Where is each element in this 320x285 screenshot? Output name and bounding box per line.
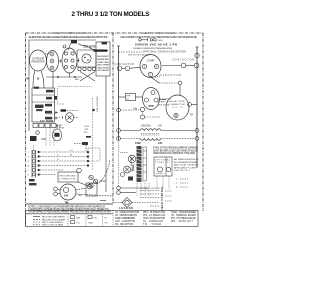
svg-text:TSTAT KIT: TSTAT KIT — [155, 161, 171, 164]
field ground box — [58, 172, 78, 182]
svg-text:LINE VOLTAGE: LINE VOLTAGE — [96, 95, 99, 112]
transformer core — [141, 134, 160, 136]
svg-text:TO INDOOR UNIT: TO INDOOR UNIT — [140, 188, 161, 190]
wire nuts — [89, 175, 98, 187]
transformer secondary wires — [76, 188, 113, 196]
fan motor wire to cap — [160, 99, 167, 101]
svg-text:WB: WB — [77, 217, 81, 219]
cabinet right edge — [105, 76, 107, 192]
wire A to B — [46, 60, 48, 62]
transformer TM — [60, 184, 76, 200]
svg-text:USE COPPER CONDUCTORS ONLY SEE: USE COPPER CONDUCTORS ONLY SEE RATING PL… — [120, 35, 197, 39]
svg-text:FOR FIELD POWER SUPPLY WIRING: FOR FIELD POWER SUPPLY WIRING SEE NOTES — [133, 48, 173, 50]
cabinet edge tick — [100, 180, 106, 182]
svg-text:24V WIRING: 24V WIRING — [131, 156, 133, 172]
low voltage wire nut 2 — [121, 166, 131, 176]
svg-text:GND: GND — [88, 222, 93, 224]
field power box fine print — [97, 56, 110, 72]
fan relay circle — [52, 129, 61, 141]
unit casing border left — [25, 33, 27, 227]
svg-text:ONLY SEE RP: ONLY SEE RP — [97, 70, 110, 72]
field power entry box — [96, 42, 110, 76]
svg-text:OL - OVERLOAD: OL - OVERLOAD — [143, 220, 163, 223]
rung fan feed — [117, 108, 140, 112]
svg-text:OPTIONAL CRANKCASE HEATER: OPTIONAL CRANKCASE HEATER — [143, 50, 186, 53]
svg-text:LEGEND: LEGEND — [119, 206, 133, 210]
heater lead — [74, 144, 86, 152]
wire nut splice — [59, 113, 79, 123]
replacement wire note block — [153, 147, 198, 155]
svg-text:24V: 24V — [158, 125, 163, 127]
svg-text:OFM - OD FAN MOTOR: OFM - OD FAN MOTOR — [143, 217, 165, 220]
legend line samples — [33, 217, 40, 225]
svg-text:2 THRU 3 1/2 TON MODELS: 2 THRU 3 1/2 TON MODELS — [72, 11, 150, 18]
svg-text:W: W — [28, 166, 30, 168]
svg-text:FM - FAN MOTOR: FM - FAN MOTOR — [115, 223, 133, 226]
svg-text:TM - TIMER: TM - TIMER — [143, 224, 161, 226]
divider between connection and ladder diagram — [112, 33, 114, 204]
transformer secondary dotted leads — [137, 183, 149, 196]
svg-text:OFM: OFM — [148, 105, 153, 108]
fuse link — [67, 110, 79, 112]
svg-text:SEE NOTE 2: SEE NOTE 2 — [174, 170, 191, 172]
right header label — [139, 31, 177, 35]
svg-text:CONTACTOR: CONTACTOR — [172, 59, 194, 62]
svg-text:FIELD GROUND: FIELD GROUND — [60, 176, 76, 178]
svg-text:FACTORY LOW VOLTAGE: FACTORY LOW VOLTAGE — [42, 218, 66, 221]
run capacitor terminal to rail — [188, 103, 192, 107]
svg-text:208/230V: 208/230V — [141, 125, 151, 127]
svg-text:WHEN INSTALLING REPLACEMENT WI: WHEN INSTALLING REPLACEMENT WIRE USE SAM… — [29, 35, 108, 39]
board lead dotted wires — [46, 129, 54, 147]
CONT label — [35, 105, 44, 108]
contactor field terminals — [55, 111, 59, 120]
crossed wires — [80, 72, 95, 82]
svg-text:TM: TM — [65, 201, 69, 205]
field control wiring dashes — [132, 191, 160, 207]
svg-text:OPTIONAL: OPTIONAL — [155, 158, 171, 161]
svg-text:GND: GND — [41, 139, 46, 141]
left edge tick — [100, 200, 106, 202]
svg-text:24V: 24V — [158, 142, 163, 145]
svg-text:CA: CA — [94, 216, 98, 219]
thermostat hookup box — [154, 157, 172, 176]
svg-text:OPT: OPT — [84, 129, 89, 131]
svg-text:COMP - COMPRESSOR: COMP - COMPRESSOR — [115, 218, 135, 220]
dual run capacitor — [166, 95, 189, 120]
dual run capacitor (right ellipse) — [62, 48, 77, 73]
panel dashed partition — [58, 88, 65, 104]
svg-text:CONNECTION: CONNECTION — [60, 179, 76, 181]
svg-text:COM: COM — [135, 142, 141, 145]
svg-text:SC: SC — [105, 222, 108, 224]
svg-text:WB - WIRE NUT: WB - WIRE NUT — [171, 221, 194, 223]
svg-text:CAP - CAPACITOR: CAP - CAPACITOR — [115, 220, 135, 223]
svg-text:LPS - LO PRESS SW: LPS - LO PRESS SW — [143, 215, 166, 217]
svg-text:CAPACITOR: CAPACITOR — [171, 103, 185, 106]
coupling mark B-C — [59, 60, 62, 63]
svg-text:ALL WIRING MUST BE IN: ALL WIRING MUST BE IN — [174, 158, 198, 161]
svg-text:DUAL RUN: DUAL RUN — [171, 100, 185, 103]
junction plate box — [77, 50, 96, 67]
thermostat legend dashes — [176, 179, 178, 189]
svg-text:R C: R C — [57, 125, 61, 128]
thermostat leads dotted — [157, 176, 169, 189]
svg-text:IPR: IPR — [127, 96, 131, 98]
low pressure switch — [113, 198, 132, 208]
svg-text:BLK: BLK — [75, 79, 80, 81]
unit casing border right — [202, 33, 204, 211]
outdoor fan motor OFM — [143, 88, 160, 110]
svg-text:CONTACTOR: CONTACTOR — [115, 63, 134, 66]
svg-text:FU: FU — [77, 222, 80, 224]
svg-text:CONDUCTORS: CONDUCTORS — [97, 67, 110, 69]
note text block right column — [174, 158, 199, 172]
svg-text:HPS - HI PRESS SW: HPS - HI PRESS SW — [143, 212, 166, 214]
svg-text:AND LOCAL CODES AS: AND LOCAL CODES AS — [174, 164, 199, 167]
svg-text:FIELD LOW VOLTAGE: FIELD LOW VOLTAGE — [42, 224, 64, 227]
svg-text:CAPACITOR: CAPACITOR — [160, 74, 181, 77]
transformer TRAN winding — [137, 146, 147, 182]
svg-text:GR: GR — [78, 195, 82, 197]
disconnect black bar — [94, 50, 108, 52]
field power wire — [78, 44, 96, 51]
svg-text:TM: TM — [190, 115, 193, 117]
terminal label column — [46, 114, 48, 120]
svg-text:SCHEMATIC WIRING DIAGRAM: SCHEMATIC WIRING DIAGRAM — [140, 31, 178, 35]
svg-text:IPR - INT PRESS RELIEF: IPR - INT PRESS RELIEF — [171, 218, 197, 220]
svg-text:CCH: CCH — [84, 126, 89, 128]
left rail L1 — [118, 46, 120, 140]
diagram bottom rule left half — [26, 203, 114, 205]
contactor contacts L2 — [162, 63, 199, 68]
svg-text:FIELD CONTROL: FIELD CONTROL — [161, 185, 164, 211]
contactor box — [32, 88, 55, 122]
svg-text:LO: LO — [70, 150, 73, 152]
svg-text:TB - TERMINAL BOARD: TB - TERMINAL BOARD — [171, 214, 196, 217]
svg-text:FIELD LINE WIRING: FIELD LINE WIRING — [42, 222, 63, 224]
svg-text:TRAN - TRANSFORMER: TRAN - TRANSFORMER — [171, 211, 196, 214]
strip bottom tags — [29, 179, 35, 181]
top edge label — [34, 87, 39, 89]
svg-text:PER NEC AND: PER NEC AND — [97, 58, 109, 61]
left header label — [50, 31, 88, 35]
power box top label — [102, 42, 108, 45]
svg-text:CC - COMP CONTACTOR: CC - COMP CONTACTOR — [115, 211, 139, 214]
replacement wire note row — [58, 86, 92, 88]
svg-text:DISCONNECT: DISCONNECT — [97, 56, 110, 58]
low voltage wire nut 1 — [120, 153, 136, 163]
wire junction dots — [87, 151, 89, 167]
internal pressure relief box — [126, 94, 136, 101]
rung transformer secondary — [117, 137, 199, 141]
control box outline — [29, 40, 96, 131]
optional start capacitor note — [158, 98, 173, 107]
svg-text:CONNECTION WIRING DIAGRAM: CONNECTION WIRING DIAGRAM — [51, 31, 89, 35]
left rail low voltage dotted — [118, 140, 120, 186]
optional crankcase heater rung — [119, 51, 143, 53]
wire capacitor top to ground lug — [69, 42, 74, 51]
compressor start assist (left ellipse) — [30, 50, 47, 71]
power supply L1 L2 GND symbols — [139, 38, 157, 41]
optional accessory text column — [84, 126, 89, 134]
junction box bottom — [86, 183, 97, 196]
transformer primary terminals — [54, 187, 61, 196]
svg-text:WIRE RATED 105 C MINIMUM TYPE: WIRE RATED 105 C MINIMUM TYPE AWM — [153, 152, 195, 155]
terminal C on rail — [117, 191, 136, 195]
compressor (middle ellipse) — [47, 51, 59, 72]
terminal lug row — [78, 67, 96, 70]
svg-text:SEE NOTE: SEE NOTE — [158, 105, 171, 107]
svg-text:COMP: COMP — [147, 59, 155, 63]
rung transformer primary — [117, 129, 199, 133]
contactor contacts L1 — [117, 66, 141, 71]
svg-text:CH - CRANKCASE HTR: CH - CRANKCASE HTR — [115, 214, 137, 217]
ground lug GRD — [71, 40, 77, 43]
capacitor output terminal — [77, 59, 80, 63]
unit casing dash-dot border top — [26, 32, 204, 34]
terminal strip wire tags — [28, 152, 30, 177]
compressor C wire to run capacitor — [152, 78, 182, 96]
svg-text:USE COPPER: USE COPPER — [97, 65, 109, 67]
svg-text:FACTORY LINE WIRING: FACTORY LINE WIRING — [42, 216, 65, 219]
legend middle symbols — [71, 216, 93, 224]
legend right columns — [115, 211, 197, 226]
cabinet dashed partition right — [92, 98, 94, 170]
small code text — [56, 125, 65, 130]
crankcase heater element — [195, 53, 199, 57]
svg-text:ACCORDANCE WITH NEC: ACCORDANCE WITH NEC — [174, 161, 198, 164]
low voltage terminal board — [33, 124, 56, 128]
right rail L2 — [196, 47, 198, 168]
rail top terminals — [117, 46, 199, 47]
low voltage field terminal strip — [31, 150, 33, 178]
fan lead terminals — [140, 107, 144, 111]
svg-text:208/230 VAC 60 HZ 1 PH: 208/230 VAC 60 HZ 1 PH — [135, 42, 177, 46]
wire compressor leads down — [33, 70, 82, 88]
compressor COMP — [140, 55, 161, 78]
svg-text:24V: 24V — [64, 195, 69, 198]
field wire labels — [57, 150, 73, 166]
legend left sub rule — [26, 213, 114, 215]
contactor terminal labels — [45, 90, 54, 120]
svg-text:3. FOR AMPACITY AND OVERCURREN: 3. FOR AMPACITY AND OVERCURRENT PROTECTI… — [28, 211, 111, 214]
field low voltage dashed wires — [40, 152, 87, 175]
svg-text:FAN MOTOR: FAN MOTOR — [32, 61, 45, 64]
thermostat junction dashed box — [88, 148, 100, 161]
svg-text:24V TERM: 24V TERM — [40, 120, 53, 123]
terminal Y on rail — [117, 186, 148, 190]
svg-text:LOCAL CODES: LOCAL CODES — [97, 61, 110, 64]
ground screw — [36, 131, 40, 135]
svg-text:APPLICABLE TO UNIT: APPLICABLE TO UNIT — [174, 166, 197, 169]
capacitor bottom terminal — [174, 113, 178, 117]
